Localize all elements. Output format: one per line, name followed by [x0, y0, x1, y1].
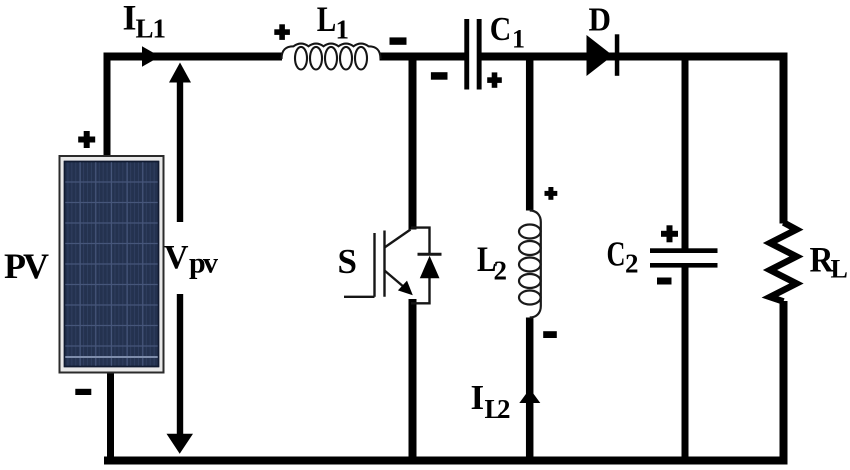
- wire left rail upper (PV + terminal up): [104, 53, 111, 158]
- wire C2 branch upper: [682, 53, 689, 251]
- plus sign C2 top: [661, 225, 678, 242]
- minus sign PV negative terminal: [75, 389, 91, 395]
- plus sign L2 top: [545, 187, 558, 200]
- wire top rail middle segment (L1 to C1): [380, 53, 465, 61]
- svg-text:D: D: [589, 2, 612, 39]
- svg-text:L2: L2: [485, 394, 511, 424]
- svg-text:L: L: [831, 255, 848, 284]
- svg-text:2: 2: [625, 249, 639, 279]
- svg-text:pv: pv: [189, 247, 218, 280]
- minus sign C1 left: [431, 72, 448, 80]
- transistor S (IGBT with antiparallel diode): [344, 228, 442, 304]
- wire L2 branch lower: [526, 318, 534, 461]
- minus sign L2 bottom: [543, 331, 557, 338]
- svg-text:I: I: [471, 378, 485, 417]
- wire L2 branch upper: [526, 53, 534, 211]
- svg-text:1: 1: [512, 25, 525, 54]
- svg-text:V: V: [164, 239, 189, 276]
- wire top rail left segment (PV to L1): [104, 53, 283, 61]
- svg-text:L1: L1: [136, 14, 166, 44]
- arrow I_L1 current arrowhead: [142, 46, 160, 66]
- capacitor C1: [464, 19, 481, 90]
- plus sign L1 left: [274, 24, 290, 40]
- minus sign C2 bottom: [657, 278, 672, 285]
- resistor R_L: [770, 223, 797, 302]
- svg-text:C: C: [607, 235, 626, 274]
- arrow V_pv upper shaft with up arrowhead: [169, 63, 191, 223]
- svg-text:L: L: [317, 0, 337, 39]
- wire C2 branch lower: [682, 266, 689, 465]
- wire switch branch upper: [409, 53, 417, 230]
- svg-text:S: S: [338, 242, 357, 281]
- inductor L2: [519, 211, 541, 318]
- svg-text:2: 2: [494, 256, 508, 286]
- plus sign C1 right: [487, 72, 502, 87]
- wire bottom rail: [104, 457, 788, 465]
- arrow V_pv lower shaft with down arrowhead: [167, 294, 194, 454]
- svg-text:1: 1: [336, 15, 350, 45]
- plus sign PV positive terminal: [78, 131, 95, 148]
- wire right rail lower: [780, 301, 788, 465]
- svg-text:C: C: [490, 11, 512, 48]
- capacitor C2: [650, 248, 718, 267]
- wire left rail lower (PV - terminal down): [107, 370, 114, 465]
- svg-text:I: I: [123, 0, 137, 38]
- arrow I_L2 current arrowhead: [519, 389, 540, 403]
- svg-text:PV: PV: [4, 246, 49, 286]
- minus sign L1 right: [390, 37, 407, 44]
- wire top rail right segment (C1 to right corner): [482, 53, 788, 61]
- wire right rail upper: [780, 53, 788, 224]
- diode D: [587, 34, 620, 76]
- inductor L1: [282, 44, 381, 70]
- wire switch branch lower: [409, 299, 417, 465]
